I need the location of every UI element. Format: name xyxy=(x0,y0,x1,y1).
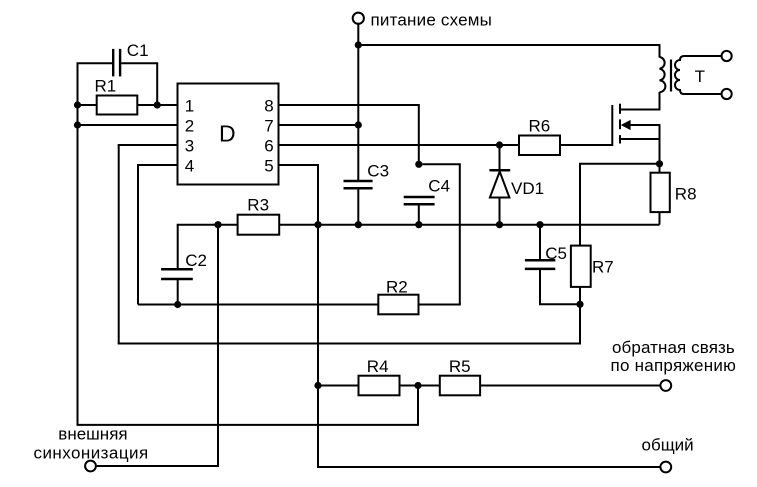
wire R4R5 junction vertical xyxy=(417,386,419,425)
svg-text:внешняя: внешняя xyxy=(58,425,127,444)
terminal: secondary bottom xyxy=(722,89,732,99)
wire pin5 xyxy=(279,164,320,166)
wire left rail xyxy=(77,63,79,425)
svg-text:D: D xyxy=(219,121,236,147)
diode VD1 xyxy=(489,145,510,225)
transistor VT1 MOSFET source lead xyxy=(620,138,660,140)
svg-text:синхонизация: синхонизация xyxy=(34,444,149,463)
node: R4 left junction xyxy=(314,382,321,389)
wire pin5 vertical xyxy=(317,165,319,467)
wire R2 right vertical xyxy=(459,164,461,304)
terminal: внешняя синхонизация xyxy=(85,461,96,472)
svg-text:4: 4 xyxy=(185,157,194,176)
node: R7/C5 junction xyxy=(576,301,583,308)
capacitor C2 xyxy=(161,225,193,305)
wire source vertical xyxy=(659,125,661,164)
wire feedback line to pin3 xyxy=(118,343,581,345)
svg-text:C2: C2 xyxy=(185,251,207,270)
wire R7 top vertical xyxy=(579,164,581,246)
capacitor C1 xyxy=(77,49,159,105)
svg-text:VD1: VD1 xyxy=(511,179,544,198)
resistor R5 xyxy=(440,376,661,396)
wire mid bus xyxy=(279,224,659,226)
wire R7 bottom lead xyxy=(579,287,581,304)
svg-text:T: T xyxy=(695,67,705,86)
transistor VT1 MOSFET gate xyxy=(611,105,613,146)
svg-text:по напряжению: по напряжению xyxy=(611,356,737,375)
svg-text:питание схемы: питание схемы xyxy=(371,11,493,30)
wire transformer primary bottom lead xyxy=(659,92,661,111)
svg-text:8: 8 xyxy=(264,97,273,116)
node: R1/C1 right junction xyxy=(154,101,161,108)
svg-text:R1: R1 xyxy=(95,76,117,95)
wire top power bus xyxy=(358,44,660,46)
svg-text:обратная связь: обратная связь xyxy=(612,338,735,357)
node: rail pin1 junction xyxy=(74,101,81,108)
wire sync vertical xyxy=(217,225,219,466)
node: mid bus junctions xyxy=(314,221,543,228)
node: R3 left / sync junction xyxy=(214,221,221,228)
node: C2 bottom junction xyxy=(174,301,181,308)
resistor R1 xyxy=(78,96,178,115)
node: C4 top junction xyxy=(415,161,422,168)
resistor R8 xyxy=(651,164,670,225)
wire source to R7 xyxy=(579,163,660,165)
wire feedback vertical xyxy=(579,304,581,343)
wire pin2 xyxy=(78,124,178,126)
transformer T primary winding xyxy=(660,57,666,92)
capacitor C5 xyxy=(525,225,580,305)
node: power junction xyxy=(355,41,362,48)
wire drain lead xyxy=(620,109,661,111)
node: R4/R5 junction xyxy=(414,382,421,389)
svg-text:1: 1 xyxy=(185,97,194,116)
resistor R4 xyxy=(318,376,440,396)
svg-text:R2: R2 xyxy=(386,277,408,296)
capacitor C3 xyxy=(344,181,373,225)
svg-text:C5: C5 xyxy=(545,244,567,263)
svg-text:R8: R8 xyxy=(675,184,697,203)
terminal: питание схемы xyxy=(353,13,364,45)
svg-text:R5: R5 xyxy=(449,357,471,376)
svg-text:общий: общий xyxy=(642,436,694,455)
node: pin7/power junction xyxy=(355,121,362,128)
label внешняя синхонизация xyxy=(34,425,149,463)
wire pin6 net xyxy=(279,144,520,146)
capacitor C4 xyxy=(404,197,435,225)
label обратная связь по напряжению xyxy=(611,338,737,375)
svg-text:C4: C4 xyxy=(428,176,450,195)
wire pin7 xyxy=(279,124,359,126)
IC D xyxy=(178,84,279,185)
wire R2 right lead xyxy=(419,304,461,306)
svg-text:R4: R4 xyxy=(367,357,389,376)
wire pin4 vertical xyxy=(137,165,139,305)
svg-text:R6: R6 xyxy=(529,117,551,136)
terminal: secondary top xyxy=(722,51,732,61)
wire C4 to R2 link xyxy=(419,163,461,165)
wire sync line xyxy=(96,465,219,467)
svg-text:7: 7 xyxy=(264,117,273,136)
wire transformer primary top lead xyxy=(659,45,661,58)
wire pin3 vertical xyxy=(118,145,120,344)
resistor R6 xyxy=(519,136,560,156)
wire gate lead from R6 xyxy=(560,144,612,146)
node: source junction xyxy=(656,160,663,167)
wire lower bus to R2 xyxy=(138,304,378,306)
wire общий line xyxy=(317,466,660,468)
wire pin8 vertical to C4 xyxy=(418,105,420,164)
svg-text:6: 6 xyxy=(264,137,273,156)
wire pin3 xyxy=(118,144,178,146)
svg-text:C1: C1 xyxy=(127,41,149,60)
svg-text:C3: C3 xyxy=(367,161,389,180)
resistor R7 xyxy=(571,246,591,287)
wire power vertical to C3 xyxy=(357,45,359,180)
transformer T secondary winding xyxy=(675,56,722,94)
wire bottom link rail to R4R5 xyxy=(77,424,420,426)
svg-text:R3: R3 xyxy=(247,196,269,215)
wire pin8 xyxy=(279,104,420,106)
transformer T core xyxy=(670,60,672,92)
svg-text:3: 3 xyxy=(185,137,194,156)
terminal: обратная связь xyxy=(660,380,671,391)
resistor R2 xyxy=(378,295,418,315)
transistor VT1 MOSFET channel xyxy=(619,104,621,144)
terminal: общий xyxy=(660,462,671,473)
svg-text:R7: R7 xyxy=(592,257,614,276)
wire pin4 xyxy=(137,164,178,166)
node: rail pin2 junction xyxy=(74,121,81,128)
transistor VT1 MOSFET body arrow xyxy=(621,120,661,130)
svg-text:5: 5 xyxy=(264,157,273,176)
node: pin6/VD1 junction xyxy=(496,141,503,148)
svg-text:2: 2 xyxy=(185,117,194,136)
resistor R3 xyxy=(177,215,280,235)
